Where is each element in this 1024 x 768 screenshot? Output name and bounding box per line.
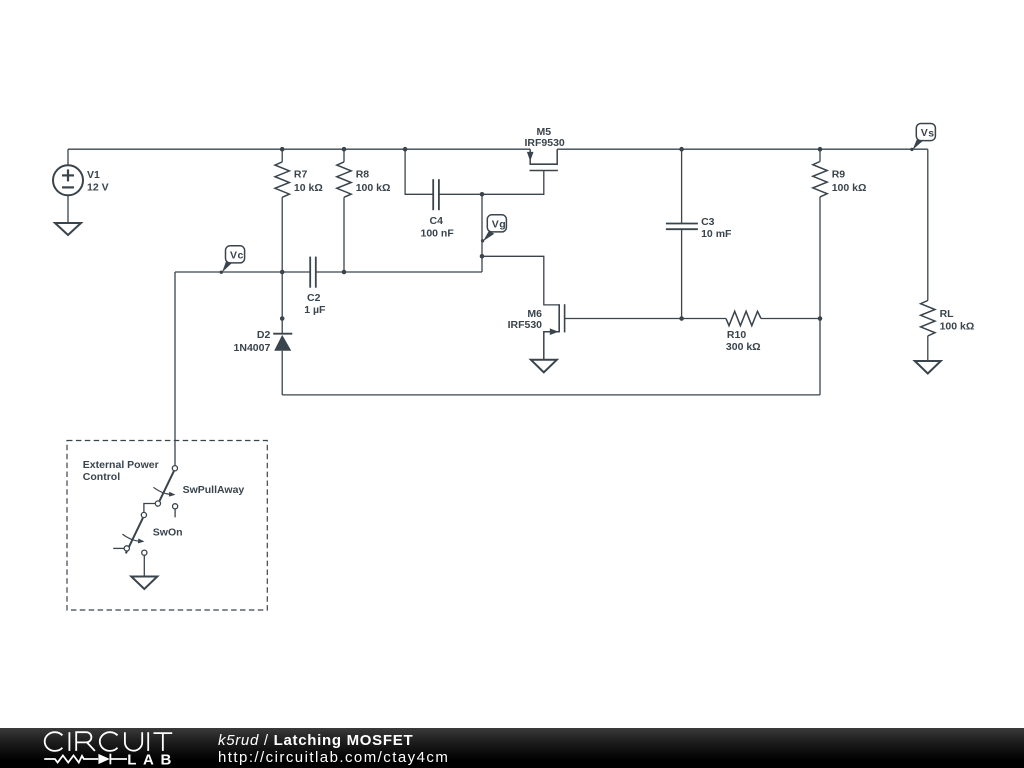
svg-text:RL: RL — [940, 308, 955, 320]
ground (below V1) — [55, 223, 81, 235]
svg-text:10 kΩ: 10 kΩ — [294, 182, 323, 194]
svg-text:12 V: 12 V — [87, 181, 109, 193]
voltage source V1 — [53, 149, 109, 223]
svg-text:V: V — [492, 218, 499, 230]
logo letter C — [45, 732, 63, 751]
capacitor C2 — [304, 257, 326, 316]
node dot rail/R8 — [342, 147, 347, 152]
logo letter I — [147, 732, 149, 751]
node dot R9/R10 — [818, 316, 823, 321]
logo letter R — [76, 732, 95, 751]
diode D2 (1N4007) — [234, 272, 293, 395]
node dot D2 pin — [280, 316, 285, 321]
node label Vg — [481, 215, 507, 243]
svg-text:D2: D2 — [257, 329, 271, 341]
resistor R7 — [275, 149, 323, 272]
svg-text:V: V — [921, 127, 928, 139]
svg-text:V1: V1 — [87, 169, 100, 181]
logo letter T — [154, 733, 173, 751]
svg-text:IRF530: IRF530 — [508, 319, 543, 331]
logo letter I — [68, 732, 70, 751]
wire bottom rail — [282, 394, 820, 396]
wire Vc horizontal right part (C2 to Vg vertical) — [316, 271, 482, 273]
node label Vc — [220, 246, 245, 274]
logo letter C — [100, 732, 118, 751]
svg-text:IRF9530: IRF9530 — [525, 137, 565, 149]
svg-text:g: g — [499, 219, 505, 231]
wire Vg vertical (Vg node down to Vc wire line) — [481, 194, 483, 272]
node dot C3/R10 wire — [679, 316, 684, 321]
CircuitLab logo — [0, 728, 200, 768]
resistor R10 — [726, 311, 820, 353]
resistor R9 — [813, 149, 867, 318]
svg-text:s: s — [928, 127, 934, 139]
wire Vc down to switch box — [174, 272, 176, 466]
mosfet M6 (IRF530) — [508, 304, 565, 360]
svg-text:Control: Control — [83, 471, 120, 483]
svg-text:C4: C4 — [430, 215, 444, 227]
switch SwOn — [113, 512, 182, 576]
svg-text:100 kΩ: 100 kΩ — [832, 182, 867, 194]
node dot Vg/C4/M5 — [480, 192, 485, 197]
svg-text:300 kΩ: 300 kΩ — [726, 341, 761, 353]
ground (below M6) — [531, 360, 557, 373]
svg-text:c: c — [238, 250, 244, 262]
wire SwPullAway to SwOn — [144, 504, 155, 513]
wire Vc horizontal left part (corner to C2) — [175, 271, 310, 273]
svg-text:R7: R7 — [294, 168, 308, 180]
node label Vs — [910, 124, 935, 152]
wire top rail left (V1+ to M5 source) — [68, 148, 530, 150]
logo diode — [98, 754, 109, 764]
capacitor C3 — [666, 149, 732, 318]
wire Vg branch to M6 drain — [482, 256, 559, 305]
svg-text:SwPullAway: SwPullAway — [183, 484, 245, 496]
svg-text:External Power: External Power — [83, 459, 159, 471]
wire C4 to Vg node — [439, 193, 482, 195]
ground (below SwOn) — [131, 577, 157, 590]
svg-text:V: V — [230, 249, 237, 261]
node dot rail/C3 — [679, 147, 684, 152]
svg-text:10 mF: 10 mF — [701, 228, 732, 240]
svg-text:100 nF: 100 nF — [421, 227, 455, 239]
resistor RL — [921, 149, 975, 361]
logo resistor — [44, 756, 98, 763]
wire top rail right (M5 drain to Vs corner) — [557, 148, 928, 150]
node dot Vc/R7/D2 — [280, 270, 285, 275]
node dot rail/R7 — [280, 147, 285, 152]
logo letter U — [125, 732, 142, 750]
svg-text:1N4007: 1N4007 — [234, 342, 271, 354]
svg-text:R10: R10 — [727, 329, 746, 341]
ground (below RL) — [915, 361, 941, 374]
svg-text:R8: R8 — [356, 168, 370, 180]
wire C4 branch from rail — [405, 149, 433, 194]
switch SwPullAway — [153, 466, 244, 518]
node dot Vg/M6 branch — [480, 254, 485, 259]
svg-text:C3: C3 — [701, 216, 715, 228]
wire R9/R10 node down to bottom rail — [819, 319, 821, 395]
node dot Vc/R8 — [342, 270, 347, 275]
resistor R8 — [337, 149, 391, 272]
svg-text:SwOn: SwOn — [153, 527, 183, 539]
node dot rail/C4 — [403, 147, 408, 152]
capacitor C4 — [421, 179, 455, 239]
footer bar — [0, 728, 1024, 768]
wire M6 gate to R10 — [565, 318, 726, 320]
svg-text:LAB: LAB — [127, 751, 178, 768]
svg-text:R9: R9 — [832, 168, 846, 180]
wire Vg node to M5 gate — [482, 171, 544, 195]
svg-text:C2: C2 — [307, 292, 321, 304]
mosfet M5 (IRF9530) — [525, 126, 565, 171]
external power control dashed box — [67, 441, 267, 611]
svg-text:100 kΩ: 100 kΩ — [356, 182, 391, 194]
node dot rail/R9 — [818, 147, 823, 152]
svg-text:1 µF: 1 µF — [304, 304, 326, 316]
svg-text:100 kΩ: 100 kΩ — [940, 321, 975, 333]
